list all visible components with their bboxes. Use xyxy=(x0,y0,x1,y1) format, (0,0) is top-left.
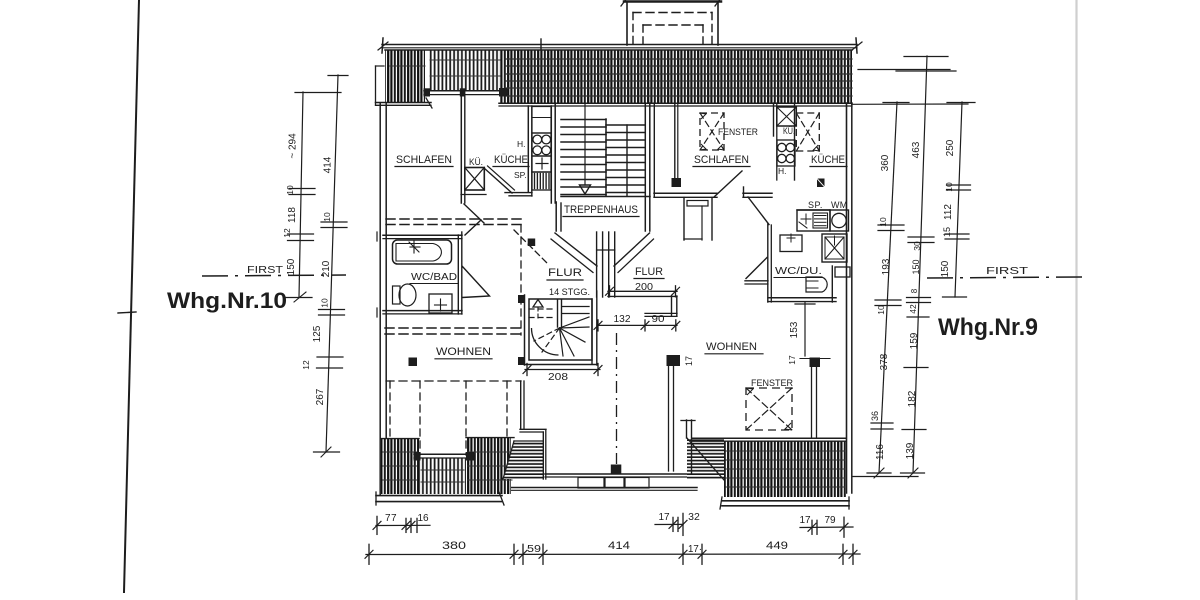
stairwell right wall xyxy=(644,103,646,231)
balcony recess wall xyxy=(414,453,474,455)
svg-text:150: 150 xyxy=(940,260,951,277)
mullion window right wohnen xyxy=(810,358,821,368)
sub dim 17/79 xyxy=(800,526,853,529)
sub dim 77/16 xyxy=(376,524,430,526)
svg-text:182: 182 xyxy=(907,390,918,407)
winder stair box xyxy=(529,299,592,360)
svg-text:12: 12 xyxy=(301,360,311,370)
svg-text:H.: H. xyxy=(778,166,787,176)
svg-text:17: 17 xyxy=(658,512,670,523)
svg-text:KÜ.: KÜ. xyxy=(469,157,483,167)
wall stub + chimney right schlafen xyxy=(674,103,676,179)
dim chain right 1 xyxy=(879,102,897,473)
dashed roof line over flur xyxy=(514,230,547,263)
dormer above roof xyxy=(626,2,628,45)
svg-text:WOHNEN: WOHNEN xyxy=(436,346,491,358)
svg-text:42: 42 xyxy=(908,304,918,314)
svg-text:16: 16 xyxy=(417,513,429,524)
svg-text:153: 153 xyxy=(789,321,800,338)
splay door schlafen xyxy=(714,171,742,197)
first line left xyxy=(202,275,346,276)
shower square xyxy=(822,234,847,262)
svg-text:30: 30 xyxy=(912,241,922,251)
shaft kue right xyxy=(773,103,775,136)
balcony slab bottom-left xyxy=(376,495,502,497)
svg-text:17·: 17· xyxy=(688,544,702,555)
right outer wall xyxy=(846,103,848,493)
wc/du bottom wall xyxy=(768,297,836,299)
svg-text:~ 294: ~ 294 xyxy=(288,133,299,159)
svg-text:116: 116 xyxy=(875,444,886,460)
first line right xyxy=(927,277,1082,278)
svg-text:159: 159 xyxy=(909,332,920,349)
svg-text:10: 10 xyxy=(320,298,330,308)
svg-text:10: 10 xyxy=(878,217,888,227)
svg-text:193: 193 xyxy=(881,258,892,275)
svg-text:FENSTER: FENSTER xyxy=(751,378,793,389)
svg-text:8: 8 xyxy=(910,288,919,293)
svg-text:SP.: SP. xyxy=(514,170,527,180)
svg-text:Whg.Nr.10: Whg.Nr.10 xyxy=(167,288,287,313)
wall stub left of right balcony xyxy=(686,420,688,438)
hand basin wc/du xyxy=(780,235,802,252)
svg-text:112: 112 xyxy=(943,204,954,220)
chimney + mullion mid right wohnen xyxy=(667,355,681,366)
stove right kitchen xyxy=(794,103,796,180)
recessed window wall (schlafen/kueche) xyxy=(424,90,507,92)
svg-text:414: 414 xyxy=(323,156,334,173)
svg-text:FENSTER: FENSTER xyxy=(718,127,758,138)
bottom main dim line xyxy=(366,553,860,556)
fenster dashed box wohnen right xyxy=(746,388,792,430)
svg-text:36: 36 xyxy=(870,411,880,421)
svg-text:WC/DU.: WC/DU. xyxy=(775,265,822,277)
shaft kue with X xyxy=(465,168,485,191)
svg-text:378: 378 xyxy=(879,353,890,370)
svg-text:12: 12 xyxy=(282,228,292,238)
svg-text:10: 10 xyxy=(876,305,886,315)
cabinet small xyxy=(835,267,850,277)
stair direction arrow xyxy=(584,104,586,185)
svg-text:360: 360 xyxy=(880,154,891,171)
svg-text:77: 77 xyxy=(385,513,397,524)
svg-text:250: 250 xyxy=(945,139,956,156)
svg-text:79: 79 xyxy=(824,515,836,526)
kueche right label + dashed window xyxy=(796,113,819,151)
balcony slab edge top-left xyxy=(376,102,432,104)
dim 153 vertical xyxy=(804,302,806,356)
svg-text:118: 118 xyxy=(287,207,298,223)
svg-text:FIRST: FIRST xyxy=(247,265,283,276)
wall schlafen/kueche xyxy=(460,96,462,203)
chimney mark left wohnen xyxy=(409,358,418,367)
svg-text:FLUR: FLUR xyxy=(635,266,663,278)
central door stubs xyxy=(596,232,598,297)
shaft foot wall xyxy=(461,194,486,196)
dim chain left inner xyxy=(326,75,338,452)
svg-text:132: 132 xyxy=(614,314,631,325)
svg-text:90: 90 xyxy=(652,314,666,325)
sub dim 17/32 xyxy=(655,523,683,525)
dim 132 / 90 xyxy=(597,324,677,326)
entrance door niche apartment 9 xyxy=(683,198,685,241)
dim chain right 2 xyxy=(913,56,927,473)
toilet wc/du xyxy=(806,277,827,292)
connector lines right xyxy=(858,69,950,71)
kitchen diagonal wall xyxy=(484,168,512,193)
wc/du entry walls xyxy=(743,192,772,194)
toilet xyxy=(393,286,401,304)
svg-text:10: 10 xyxy=(322,212,332,222)
stair lobby walls xyxy=(555,202,557,231)
svg-text:267: 267 xyxy=(315,388,326,405)
svg-text:449: 449 xyxy=(766,540,788,552)
svg-text:17: 17 xyxy=(787,355,797,365)
svg-text:SP.: SP. xyxy=(808,200,823,210)
svg-text:KÜCHE: KÜCHE xyxy=(494,154,528,166)
svg-text:414: 414 xyxy=(608,540,630,552)
door leaf wc/bad xyxy=(462,266,490,298)
svg-text:139: 139 xyxy=(905,442,916,459)
flue mark kitchen right xyxy=(817,179,825,188)
scan page fold edge left xyxy=(124,0,139,592)
scan page edge right (light) xyxy=(1075,0,1077,600)
balcony hatch bottom left xyxy=(381,439,419,494)
left outer wall xyxy=(379,103,381,495)
wc/bad walls xyxy=(383,234,462,236)
wall under flur right / dim 200 xyxy=(608,290,677,292)
svg-text:208: 208 xyxy=(548,371,568,383)
dim chain right 3 xyxy=(955,102,962,297)
fenster dashed box schlafen xyxy=(700,113,724,150)
svg-text:SCHLAFEN: SCHLAFEN xyxy=(694,154,749,166)
svg-text:H.: H. xyxy=(517,139,526,149)
svg-text:FIRST: FIRST xyxy=(986,266,1028,277)
svg-text:WOHNEN: WOHNEN xyxy=(706,341,757,353)
dashed terrace doors xyxy=(386,380,521,382)
svg-text:17: 17 xyxy=(799,515,811,526)
svg-text:TREPPENHAUS: TREPPENHAUS xyxy=(564,204,638,216)
svg-text:Whg.Nr.9: Whg.Nr.9 xyxy=(938,314,1038,341)
svg-text:KÜCHE: KÜCHE xyxy=(811,154,845,166)
dashed roof edge lines xyxy=(386,218,521,220)
svg-text:150: 150 xyxy=(286,258,297,275)
svg-text:15: 15 xyxy=(942,227,952,237)
svg-text:125: 125 xyxy=(312,325,323,342)
balcony stair right xyxy=(687,438,724,480)
splay wall above wc/bad xyxy=(464,204,484,223)
svg-text:32: 32 xyxy=(688,511,700,523)
balcony hatch bottom right xyxy=(724,441,846,497)
schlafen bottom wall right xyxy=(654,192,717,194)
bottom wall with sills xyxy=(545,473,692,475)
svg-text:17: 17 xyxy=(684,356,694,366)
kitchen appliance column xyxy=(527,106,529,192)
svg-text:14 STGG.: 14 STGG. xyxy=(549,287,590,298)
jog wall right flur xyxy=(671,296,673,316)
svg-text:380: 380 xyxy=(442,540,466,552)
roof eaves double line top xyxy=(382,44,857,46)
svg-text:463: 463 xyxy=(911,141,922,158)
roof band bottom edge right part xyxy=(499,102,852,104)
dim 208 xyxy=(525,369,600,371)
svg-text:KÜ.: KÜ. xyxy=(783,126,795,136)
svg-text:150: 150 xyxy=(911,259,921,274)
funnel into wohnen right xyxy=(746,258,767,279)
svg-text:10: 10 xyxy=(944,182,954,192)
svg-text:10: 10 xyxy=(285,185,295,195)
bathtub xyxy=(393,240,452,264)
svg-text:WM: WM xyxy=(831,200,848,210)
svg-text:59: 59 xyxy=(527,544,542,555)
svg-text:SCHLAFEN: SCHLAFEN xyxy=(396,154,452,166)
svg-text:FLUR: FLUR xyxy=(548,267,582,279)
dim chain left outer xyxy=(299,92,303,297)
hatched roof band top xyxy=(385,50,425,102)
stairwell treads xyxy=(561,119,606,121)
balcony slab bottom-right xyxy=(722,500,849,502)
lobby funnel splays xyxy=(555,233,597,266)
dash-dot party line xyxy=(616,333,618,464)
svg-text:WC/BAD: WC/BAD xyxy=(411,271,457,283)
balcony stair left xyxy=(500,438,546,482)
wash basin xyxy=(429,294,452,313)
